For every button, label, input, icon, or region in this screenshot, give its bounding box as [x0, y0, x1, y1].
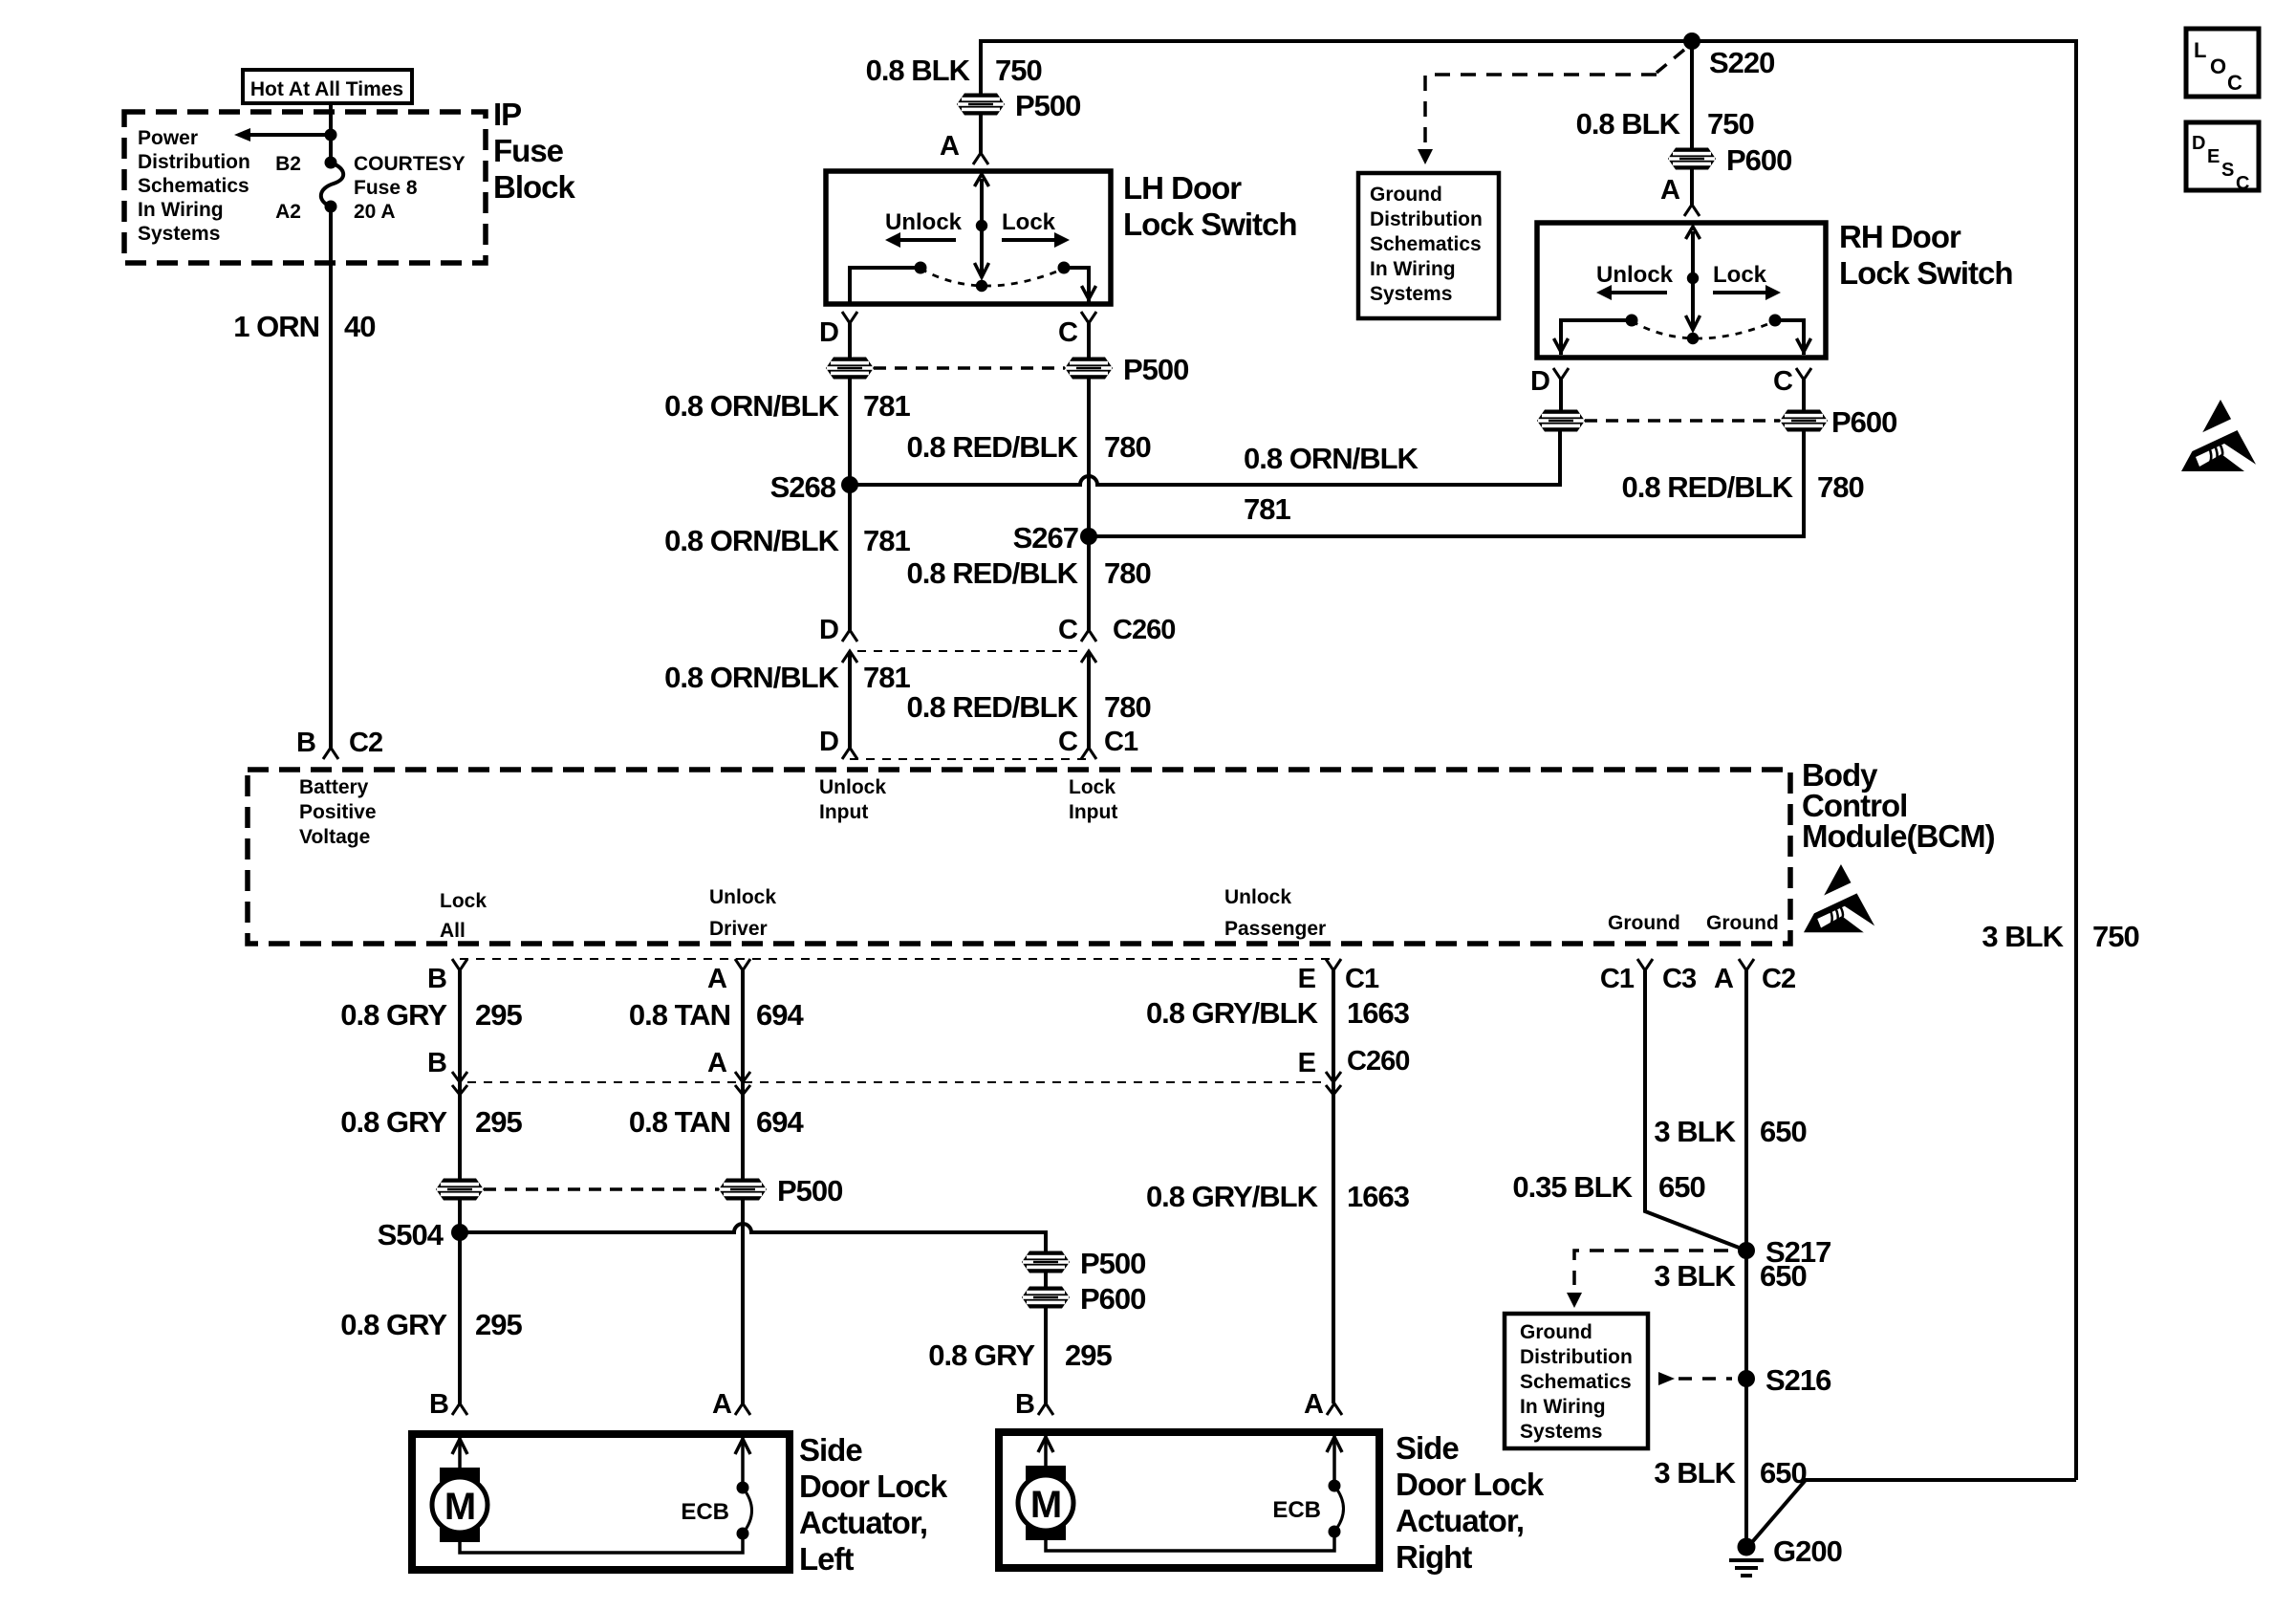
- svg-text:Actuator,: Actuator,: [1396, 1503, 1524, 1538]
- arrow to Power Distribution Schematics: [250, 133, 331, 137]
- svg-text:Ground: Ground: [1520, 1321, 1592, 1343]
- svg-text:Passenger: Passenger: [1224, 918, 1326, 940]
- BCM connector C1 dashed pin line: [850, 758, 1094, 760]
- node S220: [1683, 33, 1700, 50]
- svg-text:ECB: ECB: [1272, 1497, 1321, 1523]
- svg-text:0.8 GRY: 0.8 GRY: [928, 1338, 1035, 1372]
- dashed reference link from S220: [1657, 50, 1684, 73]
- wire 0.8 GRY 295 from BCM B: [458, 970, 462, 1082]
- svg-text:C3: C3: [1662, 964, 1697, 994]
- svg-text:LH Door: LH Door: [1123, 170, 1242, 206]
- svg-text:P500: P500: [1080, 1247, 1145, 1280]
- svg-text:C2: C2: [349, 728, 382, 758]
- wire 0.8 GRY/BLK 1663 from BCM E: [1332, 970, 1335, 1082]
- Body Control Module dashed box: [248, 770, 1790, 944]
- svg-text:295: 295: [475, 1105, 522, 1139]
- LH switch left contact wire to pin D: [850, 268, 921, 304]
- svg-text:D: D: [2192, 133, 2205, 154]
- svg-text:Ground: Ground: [1608, 912, 1680, 934]
- svg-text:694: 694: [756, 998, 804, 1032]
- RH switch pivot dot: [1687, 272, 1699, 284]
- svg-text:A: A: [940, 131, 960, 162]
- svg-text:3 BLK: 3 BLK: [1654, 1456, 1736, 1490]
- DESC reference box: [2186, 122, 2259, 190]
- svg-text:0.8 GRY: 0.8 GRY: [340, 1308, 447, 1341]
- svg-text:Unlock: Unlock: [885, 209, 963, 235]
- svg-text:E: E: [2207, 146, 2220, 167]
- svg-text:P600: P600: [1080, 1282, 1145, 1316]
- svg-text:780: 780: [1104, 690, 1151, 724]
- svg-text:Battery: Battery: [299, 776, 369, 798]
- wire 1 ORN 40 from fuse to BCM: [329, 207, 333, 748]
- svg-text:Lock: Lock: [1069, 776, 1116, 798]
- right actuator motor feed arrow: [1044, 1432, 1048, 1466]
- Ground Distribution Schematics box (bottom): [1505, 1314, 1648, 1448]
- ECB arc (right): [1334, 1486, 1344, 1532]
- RH switch wiper dashed arc: [1632, 321, 1775, 338]
- svg-text:P500: P500: [777, 1174, 842, 1207]
- motor M right: [1018, 1475, 1073, 1531]
- wire S267 branch to RH switch C: [1089, 431, 1804, 536]
- svg-text:C1: C1: [1345, 964, 1379, 994]
- connector P600 (S504 branch): [1022, 1287, 1070, 1309]
- node: junction dot at power-distribution arrow: [325, 129, 337, 141]
- svg-text:Side: Side: [1396, 1430, 1459, 1466]
- RH Door Lock Switch box: [1537, 223, 1826, 358]
- svg-text:M: M: [444, 1486, 475, 1528]
- ECB lower dot (left): [737, 1528, 749, 1540]
- svg-text:Power: Power: [138, 127, 198, 149]
- Side Door Lock Actuator Left box: [412, 1434, 790, 1570]
- svg-text:B: B: [429, 1389, 448, 1420]
- svg-text:Lock Switch: Lock Switch: [1123, 207, 1297, 242]
- svg-text:A: A: [1304, 1389, 1324, 1420]
- svg-text:Schematics: Schematics: [1370, 233, 1482, 255]
- arrowhead into Ground Distribution box: [1418, 149, 1433, 164]
- connector P500 (TAN wire): [719, 1179, 767, 1201]
- dashed tie P500: [484, 1187, 719, 1191]
- node S268: [841, 476, 858, 493]
- RH unlock direction arrow: [1611, 291, 1667, 294]
- svg-text:C: C: [1773, 366, 1793, 397]
- svg-text:Fuse: Fuse: [493, 133, 564, 168]
- svg-text:Driver: Driver: [709, 918, 768, 940]
- LH switch left contact dot: [915, 262, 927, 274]
- svg-text:295: 295: [475, 998, 522, 1032]
- LH switch selector arrow (vertical): [980, 179, 984, 275]
- svg-text:D: D: [819, 615, 838, 645]
- connector P500 on LH switch feed: [957, 94, 1005, 116]
- wire 0.35 BLK 650 from BCM C1 to S217: [1645, 970, 1746, 1251]
- svg-text:B: B: [427, 964, 446, 994]
- dashed tie P500 connectors: [874, 366, 1065, 370]
- connector P600 (RH switch D): [1537, 410, 1585, 432]
- svg-text:Unlock: Unlock: [1224, 886, 1291, 908]
- RH lock direction arrow: [1713, 291, 1766, 294]
- svg-text:Lock Switch: Lock Switch: [1839, 255, 2013, 291]
- svg-text:750: 750: [1707, 107, 1754, 141]
- fuse F8 COURTESY 20A squiggle: [321, 163, 343, 207]
- svg-text:D: D: [819, 727, 838, 757]
- svg-text:650: 650: [1760, 1259, 1807, 1293]
- svg-text:0.8 ORN/BLK: 0.8 ORN/BLK: [664, 389, 840, 423]
- svg-text:781: 781: [863, 524, 910, 557]
- svg-text:Block: Block: [493, 169, 576, 205]
- wire S504 branch to right actuator (hop over TAN wire): [460, 1224, 1046, 1251]
- svg-text:Right: Right: [1396, 1539, 1472, 1575]
- svg-text:S504: S504: [378, 1218, 444, 1251]
- RH switch selector arrow (vertical): [1691, 231, 1695, 328]
- pin B/C2 into BCM: [323, 748, 338, 759]
- svg-text:Lock: Lock: [1002, 209, 1056, 235]
- dashed reference link from S217: [1574, 1251, 1728, 1291]
- RH switch wiper dot: [1687, 333, 1699, 344]
- ESD susceptibility symbol (top right): [2178, 400, 2264, 486]
- svg-text:Input: Input: [819, 801, 868, 823]
- wire TAN below P500 to left actuator pin A: [741, 1200, 745, 1403]
- motor M left: [432, 1477, 487, 1533]
- label "Hot At All Times": [243, 70, 412, 103]
- svg-text:0.8 ORN/BLK: 0.8 ORN/BLK: [1244, 442, 1419, 475]
- Ground Distribution Schematics box (top): [1358, 173, 1499, 318]
- LH Door Lock Switch box: [826, 171, 1111, 304]
- svg-text:0.8 RED/BLK: 0.8 RED/BLK: [907, 430, 1079, 464]
- svg-text:Input: Input: [1069, 801, 1117, 823]
- svg-text:Fuse 8: Fuse 8: [354, 177, 418, 199]
- svg-text:C260: C260: [1347, 1046, 1409, 1077]
- LH switch wiper dot: [976, 280, 987, 292]
- svg-text:RH Door: RH Door: [1839, 219, 1961, 254]
- motor M right (brushes): [1026, 1466, 1066, 1482]
- svg-text:S267: S267: [1013, 521, 1078, 555]
- svg-text:A: A: [1714, 964, 1734, 994]
- svg-text:In Wiring: In Wiring: [1520, 1396, 1606, 1418]
- wire from Hot At All Times into fuse block: [329, 103, 333, 163]
- svg-text:0.8 RED/BLK: 0.8 RED/BLK: [907, 556, 1079, 590]
- dashed reference arrow to S216: [1658, 1372, 1675, 1385]
- svg-text:Systems: Systems: [1520, 1421, 1602, 1443]
- wire between P500 and P600: [1044, 1273, 1048, 1287]
- ECB upper dot (right): [1329, 1480, 1341, 1492]
- LOC reference box: [2186, 29, 2259, 97]
- svg-text:IP: IP: [493, 97, 521, 132]
- svg-text:781: 781: [863, 389, 910, 423]
- svg-text:1 ORN: 1 ORN: [233, 310, 319, 343]
- svg-text:A: A: [712, 1389, 732, 1420]
- svg-text:L: L: [2194, 38, 2206, 62]
- arrowhead into Ground Distribution box (lower): [1567, 1293, 1582, 1308]
- LH switch wiper dashed arc: [921, 269, 1064, 286]
- ECB upper dot (left): [737, 1482, 749, 1494]
- wire 781 from P500 down (D): [848, 379, 852, 630]
- svg-text:Side: Side: [799, 1432, 862, 1468]
- svg-text:0.8 TAN: 0.8 TAN: [629, 998, 730, 1032]
- svg-text:750: 750: [2092, 920, 2139, 953]
- svg-text:In Wiring: In Wiring: [1370, 258, 1456, 280]
- svg-text:0.8 RED/BLK: 0.8 RED/BLK: [1622, 470, 1794, 504]
- svg-text:694: 694: [756, 1105, 804, 1139]
- svg-text:0.8 TAN: 0.8 TAN: [629, 1105, 730, 1139]
- svg-text:780: 780: [1104, 556, 1151, 590]
- svg-text:0.8 RED/BLK: 0.8 RED/BLK: [907, 690, 1079, 724]
- svg-text:A: A: [707, 1048, 727, 1078]
- svg-text:0.8 GRY/BLK: 0.8 GRY/BLK: [1146, 996, 1319, 1030]
- svg-text:Module(BCM): Module(BCM): [1802, 818, 1995, 854]
- svg-text:Positive: Positive: [299, 801, 377, 823]
- LH switch right contact dot: [1058, 262, 1071, 274]
- svg-text:Hot At All Times: Hot At All Times: [250, 78, 403, 100]
- ECB arc (left): [743, 1488, 752, 1534]
- svg-text:Ground: Ground: [1706, 912, 1779, 934]
- svg-text:O: O: [2210, 54, 2226, 78]
- node S267: [1080, 528, 1097, 545]
- svg-text:3 BLK: 3 BLK: [1982, 920, 2064, 953]
- LH switch pivot dot: [976, 220, 987, 231]
- wire P600 to RH switch pin A: [1690, 169, 1694, 205]
- wire RH switch feed from S220: [1690, 41, 1694, 148]
- svg-text:750: 750: [995, 54, 1042, 87]
- svg-text:In Wiring: In Wiring: [138, 199, 224, 221]
- svg-text:All: All: [440, 920, 466, 942]
- connector P600 on RH switch feed: [1668, 148, 1716, 170]
- svg-text:0.8 BLK: 0.8 BLK: [866, 54, 971, 87]
- connector P500 (LH switch D): [826, 358, 874, 380]
- svg-text:P600: P600: [1831, 405, 1896, 439]
- svg-text:3 BLK: 3 BLK: [1654, 1259, 1736, 1293]
- svg-text:0.8 ORN/BLK: 0.8 ORN/BLK: [664, 524, 840, 557]
- svg-text:0.35 BLK: 0.35 BLK: [1512, 1170, 1633, 1204]
- svg-text:C2: C2: [1762, 964, 1795, 994]
- wire 3 BLK 650 from BCM C2 to G200: [1744, 970, 1748, 1549]
- RH switch left contact dot: [1626, 315, 1638, 327]
- svg-text:Distribution: Distribution: [1520, 1346, 1633, 1368]
- svg-text:S268: S268: [770, 470, 836, 504]
- svg-text:0.8 GRY/BLK: 0.8 GRY/BLK: [1146, 1180, 1319, 1213]
- svg-text:Distribution: Distribution: [138, 151, 250, 173]
- svg-text:COURTESY: COURTESY: [354, 153, 466, 175]
- ESD susceptibility symbol (BCM): [1801, 864, 1882, 946]
- svg-text:Left: Left: [799, 1541, 855, 1577]
- svg-text:B: B: [1015, 1389, 1034, 1420]
- RH switch right contact dot: [1769, 315, 1782, 327]
- svg-text:D: D: [819, 317, 838, 348]
- svg-text:Lock: Lock: [440, 890, 487, 912]
- svg-text:B: B: [296, 728, 315, 758]
- svg-text:295: 295: [475, 1308, 522, 1341]
- svg-text:C: C: [2227, 71, 2242, 95]
- svg-text:P500: P500: [1015, 89, 1080, 122]
- dashed tie P600 connectors: [1585, 419, 1780, 423]
- node S216: [1738, 1370, 1755, 1387]
- LH switch right contact wire to pin C: [1064, 268, 1089, 302]
- ground G200 symbol: [1738, 1538, 1756, 1556]
- left actuator motor feed arrow: [458, 1434, 462, 1468]
- svg-text:P500: P500: [1123, 353, 1188, 386]
- svg-text:Distribution: Distribution: [1370, 208, 1483, 230]
- wire GRY below P500 to left actuator pin B: [458, 1200, 462, 1403]
- RH switch left contact wire to pin D: [1561, 320, 1632, 355]
- svg-text:781: 781: [1244, 492, 1290, 526]
- connector C260 row (B/A/E wires): [467, 1081, 1326, 1083]
- svg-text:D: D: [1530, 366, 1549, 397]
- svg-text:S220: S220: [1709, 46, 1774, 79]
- svg-text:G200: G200: [1773, 1534, 1842, 1568]
- svg-text:Schematics: Schematics: [138, 175, 249, 197]
- svg-text:A: A: [707, 964, 727, 994]
- svg-text:M: M: [1030, 1484, 1061, 1526]
- svg-text:40: 40: [344, 310, 375, 343]
- svg-text:A2: A2: [275, 201, 301, 223]
- right rail joins ground: [1746, 1480, 2076, 1549]
- svg-text:Systems: Systems: [138, 223, 220, 245]
- svg-text:20 A: 20 A: [354, 201, 396, 223]
- svg-text:1663: 1663: [1347, 1180, 1410, 1213]
- left actuator bottom wire: [460, 1534, 743, 1553]
- svg-text:Ground: Ground: [1370, 184, 1442, 206]
- svg-text:0.8 ORN/BLK: 0.8 ORN/BLK: [664, 661, 840, 694]
- svg-text:295: 295: [1065, 1338, 1112, 1372]
- wire 0.8 BLK 750 top rail and 3 BLK 750 right rail: [981, 41, 2076, 1480]
- node S217: [1738, 1242, 1755, 1259]
- svg-text:C1: C1: [1600, 964, 1635, 994]
- wire S268 branch to RH switch D (hop over C wire): [850, 431, 1560, 485]
- svg-text:1663: 1663: [1347, 996, 1410, 1030]
- svg-text:0.8 GRY: 0.8 GRY: [340, 1105, 447, 1139]
- svg-text:781: 781: [863, 661, 910, 694]
- wire GRY/BLK below C260 to right actuator pin A: [1332, 1082, 1335, 1403]
- svg-text:Voltage: Voltage: [299, 826, 370, 848]
- IP Fuse Block dashed box: [124, 112, 486, 263]
- wire 780 from P500 down (C): [1087, 379, 1091, 630]
- connector P500 (S504 branch): [1022, 1251, 1070, 1273]
- svg-text:Lock: Lock: [1713, 262, 1767, 288]
- wire 781 below C260 (D): [848, 651, 852, 748]
- wire GRY below C260: [458, 1082, 462, 1179]
- svg-text:C1: C1: [1104, 727, 1138, 757]
- connector P500 (LH switch C): [1065, 358, 1113, 380]
- node S504: [451, 1224, 468, 1241]
- right actuator ECB wire: [1332, 1432, 1336, 1486]
- svg-text:C260: C260: [1113, 615, 1175, 645]
- svg-text:780: 780: [1104, 430, 1151, 464]
- svg-text:780: 780: [1817, 470, 1864, 504]
- connector P600 (RH switch C): [1780, 410, 1828, 432]
- left actuator ECB wire: [741, 1434, 745, 1488]
- BCM bottom connector dashed pin line: [460, 958, 1333, 960]
- svg-text:C: C: [2236, 173, 2249, 194]
- svg-text:Actuator,: Actuator,: [799, 1505, 927, 1540]
- svg-text:E: E: [1298, 1048, 1316, 1078]
- motor M left (brushes): [440, 1468, 480, 1484]
- svg-text:S216: S216: [1765, 1363, 1831, 1397]
- svg-text:Systems: Systems: [1370, 283, 1452, 305]
- svg-text:C: C: [1058, 615, 1078, 645]
- Side Door Lock Actuator Right box: [999, 1432, 1379, 1568]
- wire P600 to right actuator pin B: [1044, 1308, 1048, 1403]
- svg-text:ECB: ECB: [681, 1499, 729, 1525]
- connector P500 (GRY wire): [436, 1179, 484, 1201]
- RH switch right contact wire to pin C: [1775, 320, 1804, 355]
- svg-text:B2: B2: [275, 153, 301, 175]
- svg-text:Unlock: Unlock: [819, 776, 886, 798]
- svg-text:P600: P600: [1726, 143, 1791, 177]
- svg-text:C: C: [1058, 727, 1078, 757]
- svg-text:Schematics: Schematics: [1520, 1371, 1632, 1393]
- svg-text:650: 650: [1658, 1170, 1705, 1204]
- right actuator bottom wire: [1046, 1532, 1334, 1551]
- svg-text:0.8 GRY: 0.8 GRY: [340, 998, 447, 1032]
- svg-text:Door Lock: Door Lock: [1396, 1467, 1545, 1502]
- wire P500 to LH switch pin A: [979, 115, 983, 153]
- svg-text:Unlock: Unlock: [1596, 262, 1674, 288]
- svg-text:Unlock: Unlock: [709, 886, 776, 908]
- wire TAN below C260: [741, 1082, 745, 1179]
- LH unlock direction arrow: [899, 238, 956, 242]
- LH lock direction arrow: [1002, 238, 1055, 242]
- svg-text:0.8 BLK: 0.8 BLK: [1576, 107, 1681, 141]
- wire 780 below C260 (C): [1087, 651, 1091, 748]
- svg-text:B: B: [427, 1048, 446, 1078]
- svg-text:E: E: [1298, 964, 1316, 994]
- svg-text:S: S: [2221, 160, 2234, 181]
- svg-text:A: A: [1660, 175, 1680, 206]
- ECB lower dot (right): [1329, 1526, 1341, 1538]
- svg-text:650: 650: [1760, 1115, 1807, 1148]
- svg-text:Door Lock: Door Lock: [799, 1469, 948, 1504]
- svg-text:3 BLK: 3 BLK: [1654, 1115, 1736, 1148]
- wire 0.8 TAN 694 from BCM A: [741, 970, 745, 1082]
- svg-text:C: C: [1058, 317, 1078, 348]
